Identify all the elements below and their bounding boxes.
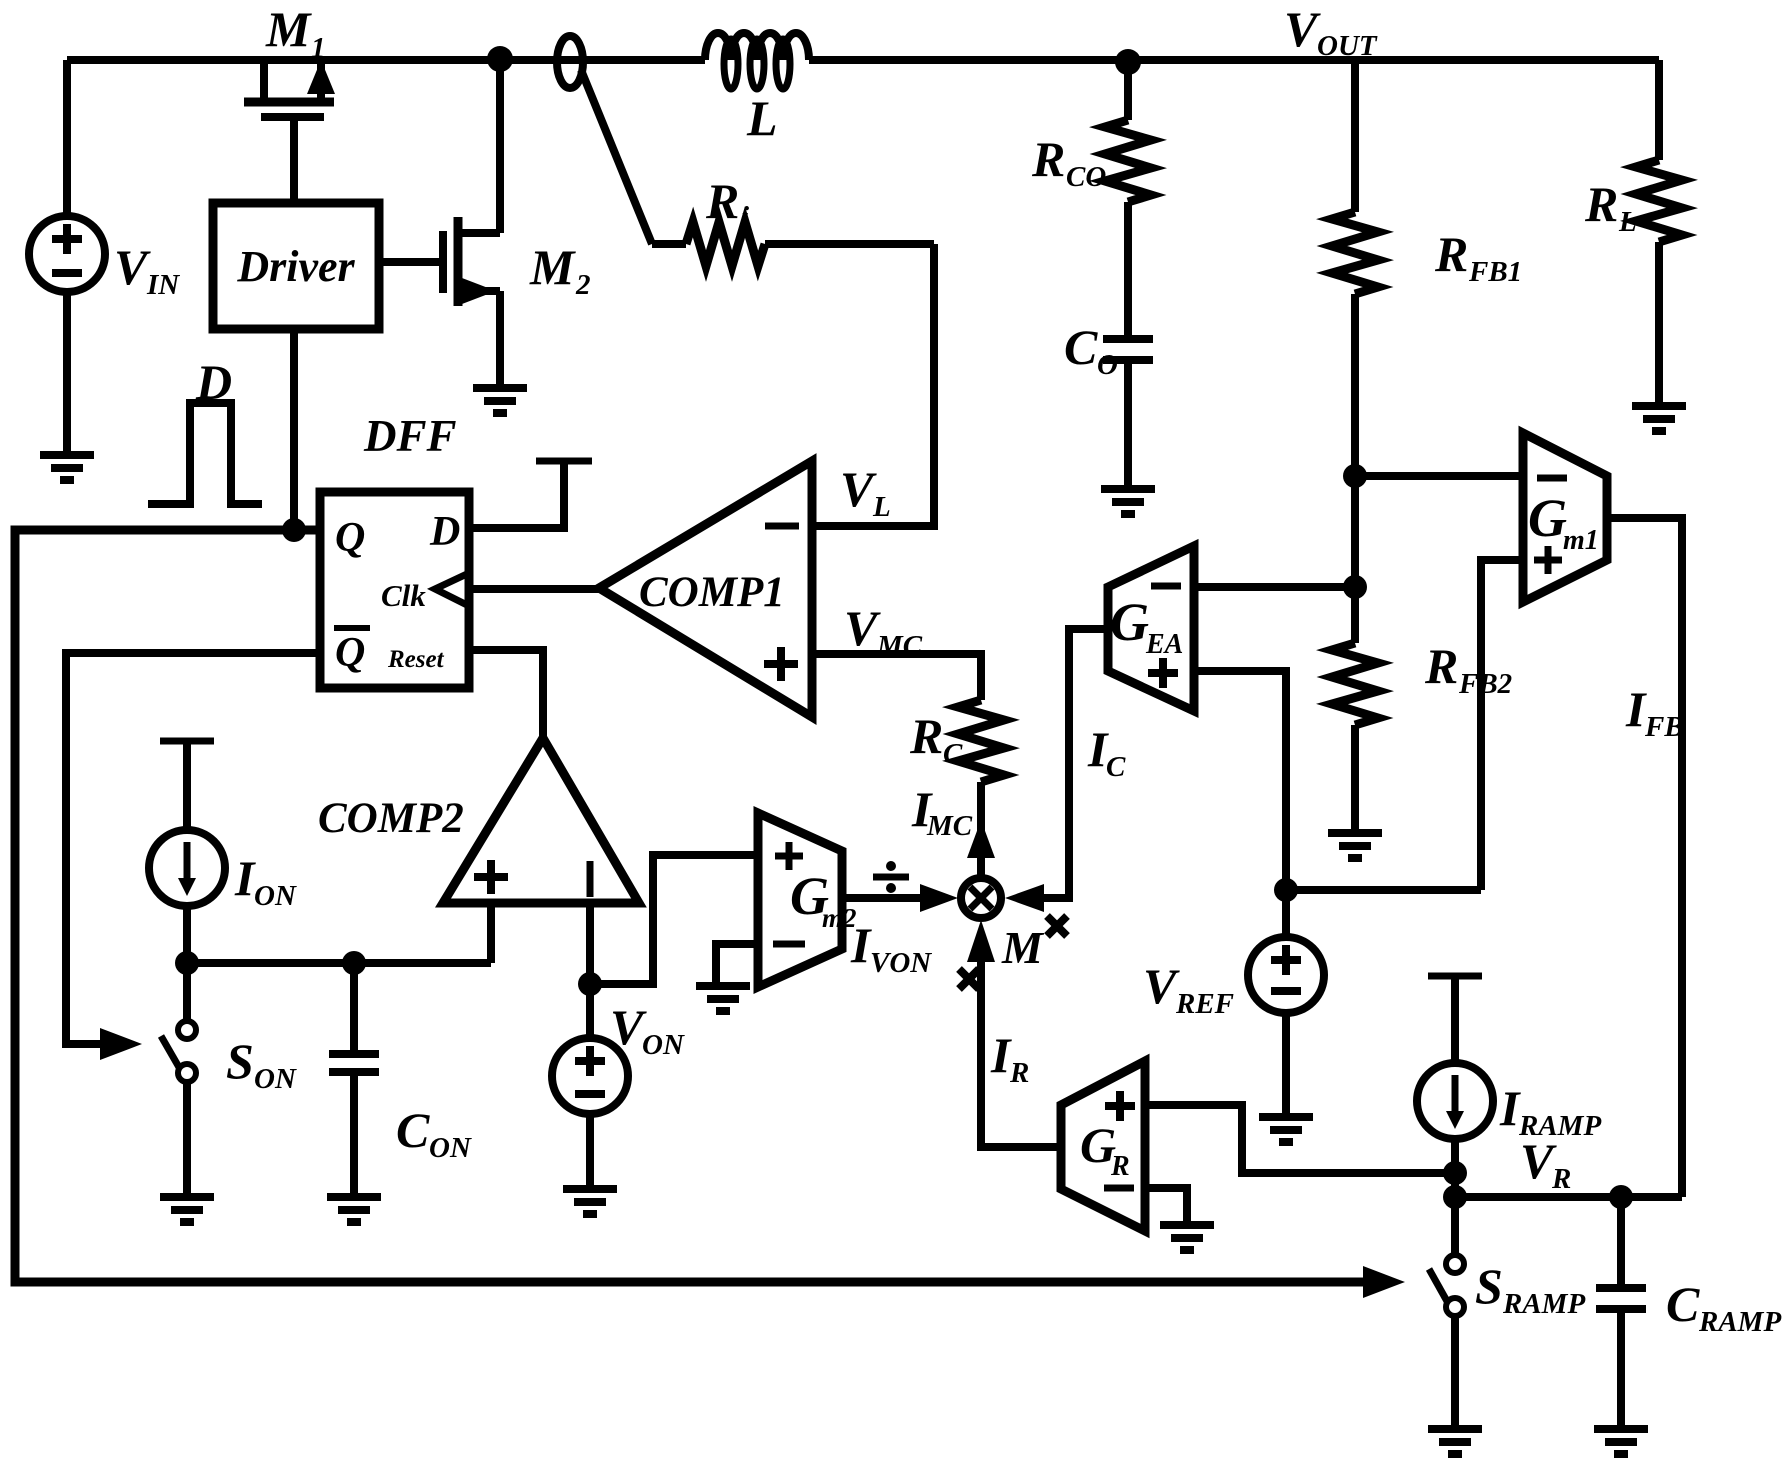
svg-text:Reset: Reset (387, 646, 445, 673)
svg-text:L: L (746, 90, 778, 146)
svg-text:D: D (429, 509, 460, 555)
svg-text:DFF: DFF (363, 411, 457, 461)
svg-text:RAMP: RAMP (1502, 1288, 1585, 1320)
svg-text:S: S (226, 1033, 254, 1089)
svg-text:L: L (872, 491, 891, 523)
svg-text:I: I (1499, 1080, 1521, 1136)
svg-text:V: V (114, 239, 151, 295)
svg-text:RAMP: RAMP (1698, 1306, 1781, 1338)
svg-text:FB1: FB1 (1468, 256, 1522, 288)
svg-text:V: V (840, 461, 877, 517)
svg-text:M: M (265, 1, 312, 57)
svg-text:ON: ON (254, 880, 297, 912)
svg-text:ON: ON (429, 1132, 472, 1164)
svg-text:R: R (1031, 131, 1065, 187)
svg-text:FB2: FB2 (1458, 668, 1512, 700)
svg-text:I: I (234, 850, 256, 906)
svg-text:CO: CO (1066, 161, 1106, 193)
svg-text:COMP1: COMP1 (639, 569, 785, 616)
svg-text:1: 1 (311, 32, 326, 64)
svg-text:IN: IN (146, 269, 180, 301)
svg-text:R: R (1009, 1057, 1029, 1089)
svg-text:C: C (943, 738, 963, 770)
svg-text:D: D (195, 354, 232, 410)
svg-text:Q: Q (335, 630, 365, 676)
svg-text:I: I (1625, 681, 1647, 737)
svg-text:V: V (1284, 1, 1321, 57)
svg-text:FB: FB (1644, 711, 1684, 743)
svg-text:Driver: Driver (236, 242, 355, 291)
svg-text:S: S (1475, 1258, 1503, 1314)
svg-text:R: R (909, 708, 943, 764)
svg-text:R: R (705, 173, 739, 229)
svg-text:RAMP: RAMP (1518, 1110, 1601, 1142)
svg-text:V: V (1143, 958, 1180, 1014)
svg-text:C: C (1106, 751, 1126, 783)
svg-text:MC: MC (876, 630, 923, 662)
svg-text:i: i (741, 201, 749, 233)
svg-text:I: I (990, 1027, 1012, 1083)
svg-text:M: M (1001, 922, 1045, 973)
svg-text:Clk: Clk (381, 578, 426, 613)
svg-text:2: 2 (575, 269, 591, 301)
svg-text:G: G (1110, 592, 1149, 652)
svg-text:Q: Q (335, 515, 365, 561)
svg-text:O: O (1097, 349, 1118, 381)
svg-text:ON: ON (254, 1063, 297, 1095)
svg-text:R: R (1424, 638, 1458, 694)
svg-text:R: R (1584, 176, 1618, 232)
svg-text:m2: m2 (822, 903, 857, 933)
svg-text:VON: VON (870, 947, 932, 979)
svg-text:C: C (1666, 1276, 1700, 1332)
svg-text:R: R (1551, 1163, 1571, 1195)
svg-text:REF: REF (1175, 988, 1234, 1020)
svg-text:MC: MC (926, 810, 973, 842)
svg-text:C: C (1064, 319, 1098, 375)
svg-text:M: M (529, 239, 576, 295)
svg-text:L: L (1618, 206, 1637, 238)
svg-text:C: C (396, 1102, 430, 1158)
svg-text:G: G (1528, 488, 1567, 548)
svg-text:OUT: OUT (1317, 30, 1378, 62)
svg-text:V: V (844, 600, 881, 656)
svg-text:R: R (1110, 1151, 1130, 1182)
svg-text:EA: EA (1145, 629, 1183, 660)
svg-text:R: R (1434, 226, 1468, 282)
svg-text:m1: m1 (1563, 525, 1599, 556)
svg-text:ON: ON (642, 1029, 685, 1061)
svg-text:COMP2: COMP2 (318, 795, 464, 842)
